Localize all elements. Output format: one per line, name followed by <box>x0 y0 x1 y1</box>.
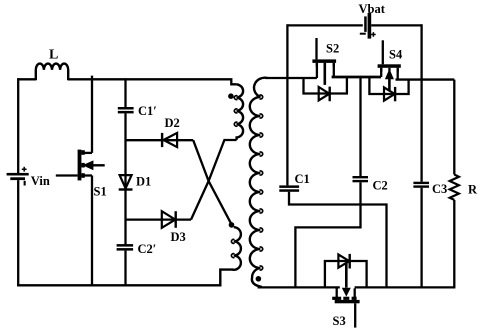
svg-text:L: L <box>49 48 58 63</box>
transistor S3 <box>325 254 367 328</box>
wire D1 to C2' <box>124 190 126 245</box>
wire secondary bottom left segment <box>258 286 340 288</box>
svg-text:Vbat: Vbat <box>359 2 386 16</box>
svg-text:D1: D1 <box>136 175 151 189</box>
transformer primary upper winding <box>237 84 243 140</box>
battery Vbat <box>360 13 376 39</box>
svg-text:S2: S2 <box>326 42 339 56</box>
transformer secondary winding <box>250 78 268 287</box>
wire S4 drain to right rail and R <box>396 78 455 80</box>
svg-text:Vin: Vin <box>31 174 50 188</box>
dot secondary <box>256 276 262 282</box>
svg-text:C3: C3 <box>432 182 447 196</box>
svg-text:S1: S1 <box>94 185 107 199</box>
wire R bottom <box>453 200 455 288</box>
wire node at C1' bottom to D2 anode-side <box>126 139 194 141</box>
capacitor C1' <box>118 107 134 113</box>
wire bottom rail <box>17 270 234 286</box>
diode D2 <box>161 133 177 147</box>
wire R top <box>453 80 455 175</box>
capacitor C2 <box>353 176 369 182</box>
diode D3 <box>162 211 177 228</box>
svg-text:C2: C2 <box>373 179 388 193</box>
wire right top rail horizontal (Vbat left) <box>287 24 362 26</box>
wire C2 bottom to left drop <box>295 182 360 287</box>
dot lower primary <box>229 222 235 228</box>
wire below battery Vin <box>17 180 19 286</box>
wire C1' to D1 <box>124 113 126 189</box>
wire right rail lower (C3 to bottom) <box>420 188 422 288</box>
wire C1 bottom to right drop <box>289 192 387 288</box>
wire secondary bottom right segment <box>355 286 456 288</box>
transistor S4 <box>369 40 408 101</box>
wire right rail upper (to C3) <box>420 24 422 181</box>
wire below C2' <box>124 251 126 286</box>
svg-text:S3: S3 <box>333 314 346 328</box>
wire diagonal D3 to upper primary winding <box>191 140 237 220</box>
battery Vin plates <box>7 167 29 186</box>
transistor S1 <box>56 150 105 181</box>
capacitor C1 <box>279 185 299 191</box>
dot upper primary <box>228 93 234 99</box>
wire top-left horizontal from left rail to inductor <box>17 78 36 80</box>
svg-text:C1: C1 <box>295 172 310 186</box>
svg-text:D3: D3 <box>171 230 186 244</box>
capacitor C2' <box>117 244 134 251</box>
wire S1 source <box>91 176 93 287</box>
curl nubs secondary winding <box>260 95 263 99</box>
wire right top rail horizontal (Vbat right) <box>371 24 421 26</box>
wire S1 drain <box>91 76 93 153</box>
svg-text:C2′: C2′ <box>138 242 157 256</box>
wire node at D1 cathode to D3 anode <box>126 218 192 220</box>
wire left vertical rail of right section down to C1 <box>286 24 288 185</box>
curl nubs upper primary <box>234 96 237 100</box>
diode D1 <box>119 175 133 191</box>
svg-text:S4: S4 <box>389 48 403 62</box>
svg-text:C1′: C1′ <box>138 104 157 118</box>
wire secondary side top run to S2 source <box>289 77 317 79</box>
transformer primary lower winding <box>234 227 241 270</box>
wire secondary top to junction <box>266 77 289 79</box>
wire C2 top tap <box>359 77 361 176</box>
resistor R <box>450 175 459 200</box>
wire left rail <box>17 78 19 173</box>
svg-text:D2: D2 <box>165 116 180 130</box>
wire top horizontal to transformer primary <box>68 79 237 84</box>
wire S2 drain to S4 source (node with C2 tap) <box>332 76 382 79</box>
capacitor C3 <box>413 182 429 188</box>
inductor L <box>36 64 68 81</box>
svg-text:R: R <box>468 183 478 197</box>
wire diagonal D2 to lower primary winding <box>193 140 231 224</box>
curl nubs lower primary <box>231 239 234 243</box>
transistor S2 <box>304 38 347 101</box>
wire center column top <box>124 78 126 107</box>
